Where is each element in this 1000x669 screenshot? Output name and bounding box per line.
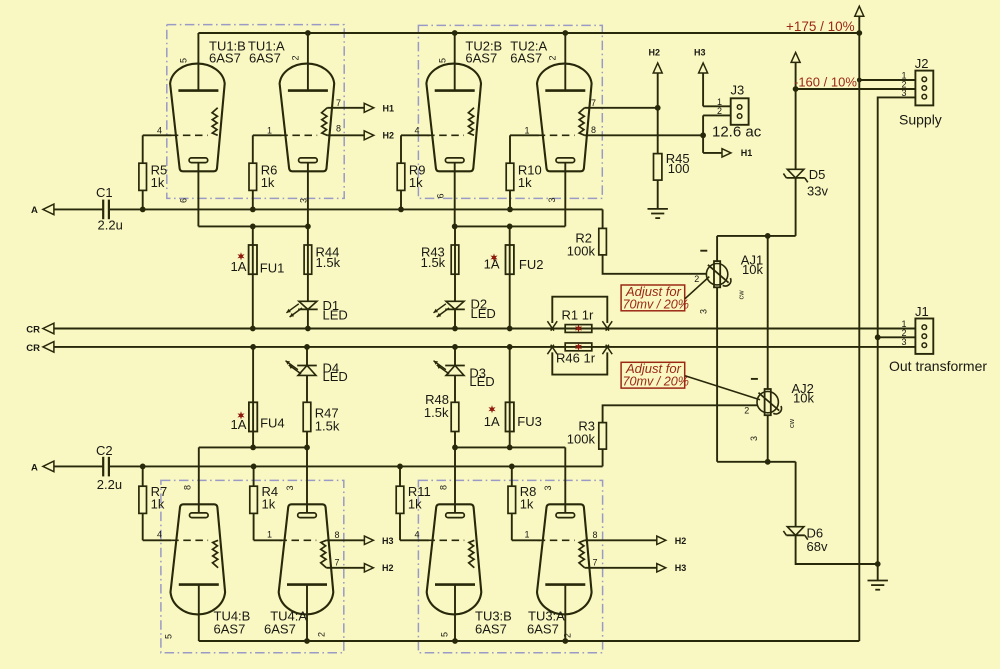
svg-text:J1: J1 (915, 304, 929, 319)
fuse FU1 (249, 245, 257, 274)
junction R10/A (507, 207, 513, 213)
svg-text:5: 5 (164, 634, 174, 639)
connector J3 (731, 98, 749, 125)
svg-text:4: 4 (415, 125, 420, 135)
svg-text:8: 8 (593, 530, 598, 540)
svg-text:1k: 1k (262, 497, 276, 512)
wire plate lead TU1:A (307, 33, 309, 91)
svg-text:1: 1 (525, 125, 530, 135)
wire FU3 column (509, 347, 511, 448)
svg-text:3: 3 (901, 337, 906, 347)
wire AJ pin3 link (717, 461, 796, 463)
measure bracket R46 (552, 352, 607, 374)
junction D2/CR (452, 326, 458, 332)
svg-text:4: 4 (415, 530, 420, 540)
capacitor C2 (102, 457, 104, 477)
tube TU4:A (279, 504, 334, 614)
wire CR lower (54, 346, 916, 348)
junction D6/gnd rail (875, 561, 881, 567)
wire heater pin8 TU1:A (327, 134, 364, 136)
wire -160/D5/AJ1 pin1 net (717, 63, 796, 261)
wire A2-line (109, 465, 603, 467)
svg-text:2: 2 (717, 106, 722, 116)
resistor R11 (396, 486, 404, 513)
svg-text:10k: 10k (742, 262, 763, 277)
svg-text:A: A (31, 205, 38, 216)
wire plate lead TU4:A (306, 585, 308, 641)
input arrow A top (43, 204, 54, 215)
resistor R9 (397, 163, 405, 190)
connector J2 (915, 71, 933, 106)
svg-text:1: 1 (525, 530, 530, 540)
tube TU1:B (170, 64, 225, 172)
junction -160 rail (793, 86, 799, 92)
fuse FU3 (506, 402, 514, 431)
junction R9/A (398, 207, 404, 213)
resistor R7 (139, 486, 147, 513)
svg-text:cw: cw (737, 290, 746, 300)
wire H2-R45 (657, 108, 659, 154)
star FU4 (237, 411, 244, 419)
svg-text:7: 7 (591, 98, 596, 108)
svg-text:6AS7: 6AS7 (475, 621, 507, 636)
junction R48 bottom (452, 445, 458, 451)
svg-text:H2: H2 (675, 536, 687, 546)
svg-text:1k: 1k (520, 497, 534, 512)
svg-text:H2: H2 (382, 563, 394, 573)
svg-text:2: 2 (563, 633, 573, 638)
svg-text:5: 5 (440, 632, 450, 637)
frame TU2 unit frame (418, 25, 602, 198)
wire J2 pin3 (878, 97, 916, 580)
signal arrow H2 b2 (657, 536, 666, 544)
wire R2 to AJ1 wiper (603, 255, 707, 274)
svg-text:6: 6 (436, 193, 446, 198)
svg-text:6AS7: 6AS7 (209, 50, 241, 65)
junction TU4:A plate (304, 638, 310, 644)
svg-text:3: 3 (543, 485, 553, 490)
signal arrow H3 b1 (364, 536, 373, 544)
svg-text:1k: 1k (518, 175, 532, 190)
svg-text:H3: H3 (675, 563, 687, 573)
wire plate lead TU4:B (198, 585, 200, 641)
svg-text:3: 3 (285, 485, 295, 490)
junction R6/A (250, 207, 256, 213)
svg-text:J3: J3 (731, 83, 745, 98)
zener D6 (783, 527, 807, 540)
junction R5/A (140, 207, 146, 213)
svg-text:H2: H2 (649, 47, 661, 57)
tube TU3:A (537, 504, 592, 614)
junction FU3/CR (507, 344, 513, 350)
svg-text:1A: 1A (231, 259, 247, 274)
wire cathode TU3:B (454, 447, 456, 513)
wire A-line to R2 (602, 209, 604, 228)
junction D1/CR (305, 326, 311, 332)
frame TU3 unit frame (418, 480, 602, 652)
wire cathode rail TU1 (198, 225, 308, 227)
input arrow CR lower (43, 342, 54, 353)
junction R7/A2 (140, 464, 146, 470)
svg-text:H3: H3 (382, 536, 394, 546)
junction heater/H2 (655, 105, 661, 111)
wire link to D6 (795, 462, 797, 527)
signal arrow H3 b2 (657, 564, 666, 572)
svg-text:70mv / 20%: 70mv / 20% (623, 375, 690, 389)
svg-text:8: 8 (336, 124, 341, 134)
junction TU2:A plate (562, 30, 568, 36)
svg-text:1: 1 (267, 125, 272, 135)
svg-text:8: 8 (439, 485, 449, 490)
svg-text:100: 100 (668, 161, 690, 176)
svg-text:C2: C2 (96, 443, 113, 458)
wire FU2 column (509, 226, 511, 328)
wire grid net R4 (253, 466, 255, 486)
wire cathode TU1:A (307, 163, 309, 227)
resistor R48 (451, 402, 459, 431)
wire heater pin7 TU2:A (585, 107, 658, 109)
svg-text:FU2: FU2 (519, 257, 544, 272)
junction R43 top (452, 224, 458, 230)
svg-text:68v: 68v (807, 539, 828, 554)
power arrow H3 up (699, 63, 708, 73)
resistor R43 (451, 245, 459, 274)
svg-text:33v: 33v (807, 184, 828, 199)
wire heater pin7 TU1:A (327, 107, 364, 109)
svg-text:1.5k: 1.5k (315, 419, 340, 434)
resistor R3 (599, 423, 607, 450)
connector J1 (915, 319, 933, 354)
wire plate lead TU2:A (564, 33, 566, 91)
polarity dash AJ2 (751, 378, 758, 380)
wire plate lead TU1:B (197, 33, 199, 91)
wire AJ2 pin3 (767, 415, 769, 462)
svg-text:8: 8 (335, 530, 340, 540)
LED D1 (286, 301, 317, 317)
wire cathode rail TU3 (455, 446, 565, 448)
svg-text:1A: 1A (484, 414, 500, 429)
wire +175 vertical rail (858, 33, 860, 641)
star FU3 (488, 405, 495, 413)
wire plate lead TU3:A (564, 585, 566, 641)
wire grid net R8 (511, 466, 513, 486)
svg-text:H2: H2 (383, 130, 395, 140)
svg-text:2: 2 (744, 405, 749, 415)
wire J3 pin2 drop (703, 114, 731, 116)
svg-text:1.5k: 1.5k (424, 405, 449, 420)
LED D4 (286, 361, 317, 376)
svg-text:FU3: FU3 (517, 414, 542, 429)
svg-text:6: 6 (179, 198, 189, 203)
junction FU2 top (507, 224, 513, 230)
wire cathode rail TU2 (455, 225, 566, 227)
frame TU1 unit frame (167, 25, 344, 199)
svg-text:6AS7: 6AS7 (264, 621, 296, 636)
signal arrow H1 (364, 103, 374, 112)
measure bracket R1 (552, 297, 607, 323)
svg-text:-160 / 10%: -160 / 10% (794, 74, 857, 89)
junction TU1:A plate (305, 30, 311, 36)
svg-text:CR: CR (26, 343, 40, 354)
input arrow CR upper (43, 323, 54, 334)
zener D5 (783, 169, 807, 182)
svg-text:7: 7 (336, 98, 341, 108)
junction FU1/CR (250, 326, 256, 332)
svg-text:H1: H1 (383, 103, 395, 113)
svg-text:FU1: FU1 (260, 261, 285, 276)
resistor R8 (508, 486, 516, 513)
svg-text:1k: 1k (261, 175, 275, 190)
svg-text:6AS7: 6AS7 (465, 50, 497, 65)
star R1 (575, 324, 582, 332)
resistor R4 (250, 486, 258, 513)
svg-text:cw: cw (787, 418, 796, 428)
wire heater pin7 TU4:A (326, 567, 364, 569)
junction FU3 bottom (507, 445, 513, 451)
junction AJ2 pin1 (765, 233, 771, 239)
svg-text:3: 3 (901, 88, 906, 98)
junction R44 top (305, 224, 311, 230)
wire heater pin7 TU3:A (585, 567, 657, 569)
wire cathode TU2:A (564, 163, 566, 227)
junction +175/J2-1 (857, 78, 862, 83)
svg-text:5: 5 (179, 58, 189, 63)
wire grid net R7 (142, 466, 144, 486)
svg-text:6AS7: 6AS7 (510, 50, 542, 65)
svg-text:1A: 1A (484, 256, 500, 271)
svg-text:LED: LED (471, 306, 496, 321)
svg-text:LED: LED (323, 307, 348, 322)
capacitor C1 (102, 200, 104, 220)
wire A2-line left (54, 465, 103, 467)
svg-text:1k: 1k (409, 175, 423, 190)
junction FU2/CR (507, 326, 513, 332)
svg-text:1.5k: 1.5k (421, 255, 446, 270)
svg-text:LED: LED (469, 374, 494, 389)
signal arrow H2 b1 (364, 564, 373, 572)
fuse FU4 (249, 402, 257, 431)
potentiometer AJ2 (757, 389, 782, 415)
wire A-line top (109, 208, 603, 210)
tube TU2:A (537, 64, 592, 172)
wire D3 column (454, 347, 456, 366)
wire R44 column (307, 226, 309, 301)
svg-text:4: 4 (157, 125, 162, 135)
tube TU4:B (171, 504, 226, 614)
potentiometer AJ1 (706, 261, 731, 287)
fuse FU2 (506, 245, 514, 274)
signal arrow H2 right (364, 131, 374, 140)
svg-text:2: 2 (694, 274, 699, 284)
svg-text:6AS7: 6AS7 (214, 621, 246, 636)
svg-text:2.2u: 2.2u (98, 218, 123, 233)
wire bottom plate rail (199, 640, 860, 642)
wire FU4 column (252, 347, 254, 448)
wire cathode TU1:B (197, 163, 199, 227)
svg-text:12.6 ac: 12.6 ac (712, 123, 762, 140)
resistor R2 (599, 228, 607, 255)
svg-text:100k: 100k (567, 243, 596, 258)
wire heater pin8 TU2:A 12.6ac (585, 134, 704, 136)
svg-text:6AS7: 6AS7 (249, 50, 281, 65)
svg-text:7: 7 (335, 558, 340, 568)
star FU1 (237, 252, 244, 260)
junction +175 corner (856, 30, 862, 36)
polarity dash AJ1 (700, 250, 707, 252)
wire R3 to AJ2 wiper (603, 405, 757, 422)
svg-text:A: A (31, 462, 38, 473)
power arrow -160 (791, 52, 800, 62)
junction R8/A2 (509, 464, 515, 470)
star FU2 (490, 253, 497, 261)
svg-text:R1 1r: R1 1r (562, 307, 594, 322)
junction TU3:B plate (452, 638, 458, 644)
svg-text:2: 2 (291, 55, 301, 60)
svg-text:100k: 100k (567, 432, 596, 447)
svg-text:CR: CR (26, 325, 40, 336)
LED D3 (434, 361, 465, 376)
wire FU1 column (252, 226, 254, 328)
svg-text:3: 3 (749, 436, 759, 441)
junction J1-2 (875, 334, 881, 340)
wire CR upper (54, 328, 916, 330)
svg-text:5: 5 (438, 58, 448, 63)
junction R4/A2 (251, 464, 257, 470)
wire cathode TU2:B (454, 163, 456, 227)
wire R3 to A-line (602, 449, 604, 466)
svg-text:3: 3 (547, 197, 557, 202)
svg-text:8: 8 (183, 485, 193, 490)
callout leader 1 (685, 277, 709, 299)
svg-text:D5: D5 (809, 167, 826, 182)
svg-text:J2: J2 (915, 56, 929, 71)
svg-text:+175 / 10%: +175 / 10% (786, 19, 855, 34)
resistor R44 (304, 245, 312, 274)
svg-text:1.5k: 1.5k (316, 255, 341, 270)
wire R43 column (454, 226, 456, 301)
wire grid net R6 (252, 190, 254, 209)
svg-text:1: 1 (267, 530, 272, 540)
svg-text:1k: 1k (151, 497, 165, 512)
wire grid net R9 (400, 190, 402, 209)
wire H3-J3 pin1 (703, 105, 731, 107)
resistor R47 (303, 402, 311, 431)
svg-text:70mv / 20%: 70mv / 20% (623, 297, 690, 311)
wire grid net R5 (142, 190, 144, 209)
junction R47 bottom (304, 445, 310, 451)
svg-text:Out transformer: Out transformer (889, 358, 987, 374)
wire grid net R10 (509, 190, 511, 209)
wire D6 to ground rail (796, 535, 878, 564)
svg-text:7: 7 (593, 558, 598, 568)
junction R11/A2 (397, 464, 403, 470)
svg-text:2: 2 (548, 55, 558, 60)
input arrow A bottom (43, 461, 54, 472)
svg-text:H1: H1 (741, 148, 753, 158)
wire H1 stub (702, 135, 704, 153)
svg-text:4: 4 (157, 530, 162, 540)
wire cathode TU4:A (306, 447, 308, 513)
wire A-line left segment (54, 208, 103, 210)
resistor R5 (139, 163, 147, 190)
resistor R1 (series) (565, 325, 592, 333)
wire AJ1 pin3 (716, 287, 718, 462)
svg-text:C1: C1 (96, 185, 113, 200)
wire cathode rail TU4 (199, 446, 307, 448)
wire grid net R11 (399, 466, 401, 486)
svg-text:R46 1r: R46 1r (556, 351, 596, 366)
svg-text:1A: 1A (231, 417, 247, 432)
wire plate lead TU2:B (454, 33, 456, 91)
junction 12.6ac/J3-2 (700, 132, 706, 138)
resistor R10 (506, 163, 514, 190)
wire AJ2 pin1 (767, 236, 769, 389)
junction FU4 bottom (250, 445, 256, 451)
junction D4/CR (304, 344, 310, 350)
LED D2 (434, 301, 465, 317)
callout box 2 (621, 362, 685, 388)
junction FU1 top (250, 224, 256, 230)
svg-text:10k: 10k (793, 391, 814, 406)
svg-text:1k: 1k (151, 175, 165, 190)
svg-text:Supply: Supply (899, 112, 942, 128)
wire +175 plate rail (198, 32, 859, 34)
resistor R46 (series) (565, 343, 592, 351)
svg-text:3: 3 (699, 309, 709, 314)
resistor R45 (654, 154, 662, 181)
star R46 (575, 343, 582, 351)
wire heater pin8 TU3:A (585, 539, 657, 541)
tube TU3:B (427, 504, 482, 614)
resistor R6 (249, 163, 257, 190)
wire R45-gnd (657, 180, 659, 209)
junction FU4/CR (250, 344, 256, 350)
svg-text:LED: LED (323, 369, 348, 384)
junction TU2:B plate (452, 30, 458, 36)
wire cathode TU3:A (564, 447, 566, 513)
wire D4 column (306, 347, 308, 366)
wire heater pin8 TU4:A (326, 539, 364, 541)
wire plate lead TU3:B (454, 585, 456, 641)
wire J2 pin1 (859, 79, 915, 81)
ground bottom right (868, 580, 888, 582)
svg-text:8: 8 (591, 125, 596, 135)
junction TU3:A plate (562, 638, 568, 644)
tube TU2:B (426, 64, 481, 172)
junction D3/CR (452, 344, 458, 350)
svg-text:1k: 1k (408, 497, 422, 512)
frame TU4 unit frame (161, 480, 344, 652)
signal arrow H1 small (722, 149, 731, 157)
svg-text:2.2u: 2.2u (97, 477, 122, 492)
svg-text:2: 2 (317, 632, 327, 637)
svg-text:H3: H3 (694, 47, 706, 57)
wire cathode TU4:B (198, 447, 200, 513)
power arrow H2 up (653, 63, 662, 73)
callout leader 2 (685, 376, 760, 400)
tube TU1:A (280, 64, 335, 172)
wire -160 rail to J2 pin2 (796, 88, 916, 90)
svg-text:FU4: FU4 (260, 415, 285, 430)
power arrow +175 (855, 6, 864, 16)
ground under R45 (648, 208, 668, 210)
callout box 1 (621, 285, 685, 311)
junction AJ2 pin3 (765, 459, 771, 465)
wire J1 pin2 (878, 336, 916, 338)
svg-text:6AS7: 6AS7 (527, 621, 559, 636)
